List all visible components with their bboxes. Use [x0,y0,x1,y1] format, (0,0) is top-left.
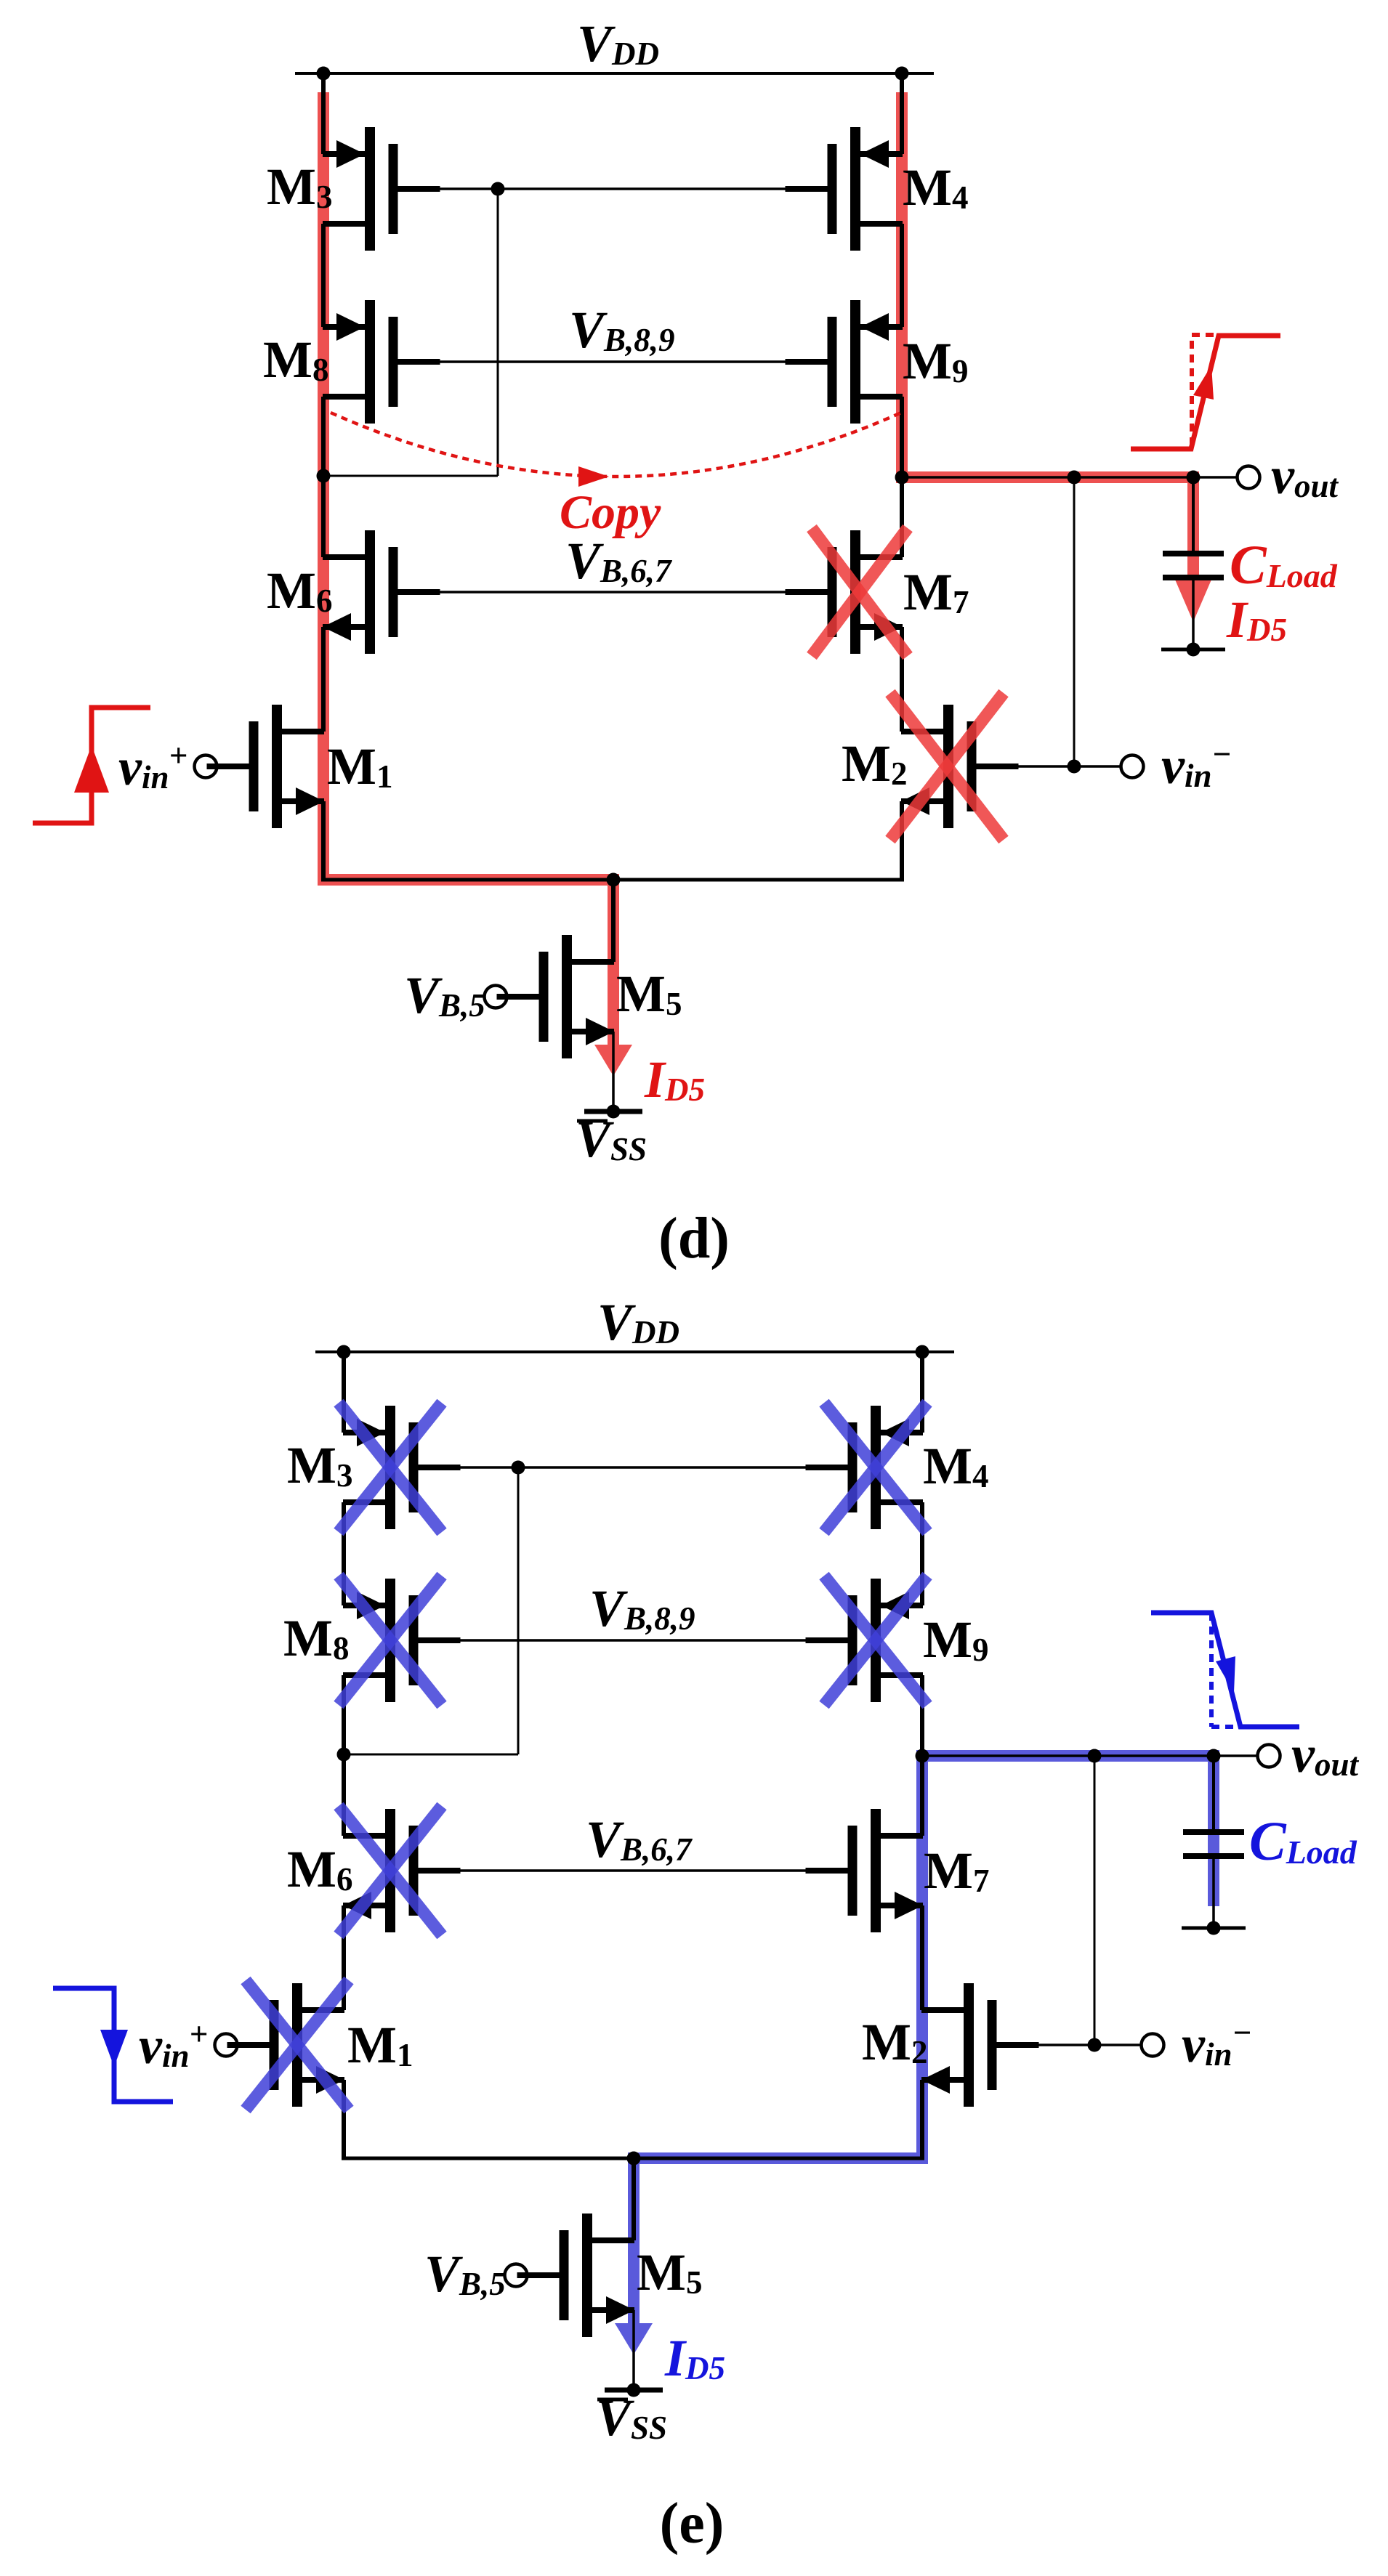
svg-text:(d): (d) [658,1207,730,1271]
svg-text:(e): (e) [660,2492,725,2556]
svg-text:Copy: Copy [560,486,661,539]
